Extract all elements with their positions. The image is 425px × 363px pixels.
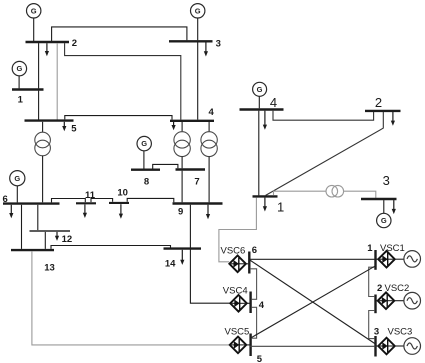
load arrow at right bus 4 xyxy=(264,111,266,126)
generator G at bus 3 xyxy=(191,4,205,18)
generator G at bus 2 xyxy=(27,4,41,18)
bus 5 busbar xyxy=(25,119,74,121)
svg-text:G: G xyxy=(31,6,37,15)
DC link 1-2 xyxy=(369,267,375,296)
wire bus 4 to transformer 4-9 xyxy=(208,122,210,132)
load arrow at bus 3 xyxy=(205,43,207,53)
generator G at bus 8 xyxy=(137,136,151,150)
wire line 7-8 xyxy=(153,164,178,168)
svg-text:VSC5: VSC5 xyxy=(225,327,250,338)
wire VSC4 to DC node 4 xyxy=(247,302,250,304)
wire VSC6 AC side to right grid bus 1 xyxy=(219,198,257,262)
svg-text:2: 2 xyxy=(377,283,382,294)
bus 4 busbar xyxy=(170,120,214,122)
wire generator lead to bus 2 xyxy=(33,18,35,41)
DC node 1 bar xyxy=(374,250,376,270)
transformer 4-9 xyxy=(201,132,217,148)
wire bus 13 to VSC5 xyxy=(32,251,230,345)
svg-text:2: 2 xyxy=(72,38,77,49)
wire line 2-5 xyxy=(56,43,58,119)
svg-text:VSC2: VSC2 xyxy=(385,283,410,294)
wire generator lead to bus 8 xyxy=(143,151,145,169)
right bus 3 busbar xyxy=(361,198,397,200)
wire line 9-14 continuing to VSC4 xyxy=(190,205,230,304)
AC source 3 xyxy=(404,338,421,355)
bus 6 busbar xyxy=(3,202,60,204)
svg-text:6: 6 xyxy=(252,245,257,256)
wire generator lead to right bus 3 xyxy=(383,200,385,213)
right bus 2 busbar xyxy=(365,110,401,112)
wire line 12-13 xyxy=(44,232,46,249)
wire bus 4 to transformer 4-7 xyxy=(181,122,183,132)
svg-text:8: 8 xyxy=(144,177,149,188)
AC source 2 xyxy=(404,292,421,309)
load arrow at right bus 3 xyxy=(393,200,395,210)
svg-text:G: G xyxy=(381,216,387,225)
svg-text:VSC3: VSC3 xyxy=(388,327,413,338)
bus 11 busbar xyxy=(76,202,96,204)
svg-text:VSC1: VSC1 xyxy=(380,243,405,254)
svg-text:G: G xyxy=(14,174,20,183)
DC link 4-5 xyxy=(251,307,256,338)
svg-text:4: 4 xyxy=(209,107,215,118)
bus 9 busbar xyxy=(173,202,223,204)
wire transformer 5-6 to bus 6 xyxy=(42,156,44,203)
converter VSC4 xyxy=(230,295,247,312)
wire VSC5 to DC node 5 xyxy=(246,344,249,346)
converter VSC2 xyxy=(378,292,395,309)
svg-text:4: 4 xyxy=(259,300,265,311)
wire DC node 2 to VSC2 xyxy=(377,300,378,302)
svg-text:5: 5 xyxy=(257,354,263,363)
svg-text:3: 3 xyxy=(216,39,221,50)
wire transformer 4-7 to bus 7 xyxy=(181,157,183,169)
wire line 7-9 xyxy=(181,171,183,203)
load arrow at bus 5 xyxy=(63,122,65,127)
bus 2 busbar xyxy=(26,41,70,43)
svg-text:9: 9 xyxy=(178,207,183,218)
load arrow at bus 10 xyxy=(120,204,122,214)
transformer 1-3 right grid xyxy=(326,185,338,197)
svg-text:1: 1 xyxy=(367,243,373,254)
svg-text:6: 6 xyxy=(3,194,8,205)
wire line 1-2 xyxy=(38,43,40,88)
wire DC node 3 to VSC3 xyxy=(377,345,379,347)
wire transformer 4-9 to bus 9 xyxy=(208,157,210,203)
svg-text:3: 3 xyxy=(383,173,390,188)
wire generator lead to right bus 4 xyxy=(258,96,260,108)
DC node 3 bar xyxy=(374,336,376,357)
transformer 4-7 xyxy=(174,132,190,148)
svg-text:12: 12 xyxy=(62,234,73,245)
svg-text:G: G xyxy=(16,64,22,73)
right bus 4 busbar xyxy=(240,108,284,110)
bus 1 busbar xyxy=(12,88,44,90)
DC link 5-3 xyxy=(250,345,376,347)
load arrow at bus 12 xyxy=(56,232,58,237)
converter VSC6 xyxy=(229,256,246,273)
DC link 6-4 xyxy=(250,269,257,300)
svg-text:10: 10 xyxy=(117,187,128,198)
DC link 6-1 xyxy=(250,258,376,260)
wire transformer 1-3 to right bus 3 xyxy=(344,191,376,198)
wire diagonal line 2-1 right grid xyxy=(266,112,384,195)
load arrow at bus 6 xyxy=(10,205,12,214)
bus 10 busbar xyxy=(109,202,129,204)
wire line 11-10 xyxy=(91,199,113,203)
wire generator lead to bus 3 xyxy=(197,18,199,40)
wire line 6-12 xyxy=(37,205,39,230)
transformer 5-6 xyxy=(35,132,51,148)
DC node 6 bar xyxy=(248,252,250,274)
load arrow at right bus 1 xyxy=(264,198,266,208)
wire line 13-14 xyxy=(51,246,171,249)
wire VSC2 to AC source 2 xyxy=(394,300,404,302)
bus 12 busbar xyxy=(30,230,71,232)
generator G at right bus 4 xyxy=(253,82,267,96)
bus 13 busbar xyxy=(11,249,54,251)
svg-text:13: 13 xyxy=(44,262,55,273)
load arrow at bus 14 xyxy=(181,250,183,261)
wire generator lead to bus 1 xyxy=(18,76,20,89)
load arrow at bus 2 xyxy=(46,43,48,52)
load arrow at bus 9 xyxy=(207,205,209,215)
wire line 1-5 xyxy=(38,91,40,120)
generator G at bus 6 xyxy=(10,171,25,186)
wire line 6-13 xyxy=(21,205,23,249)
wire VSC3 to AC source 3 xyxy=(395,345,404,347)
wire line 1-3 with transformer right grid xyxy=(274,191,327,195)
wire bus 5 to transformer 5-6 xyxy=(42,122,44,133)
DC link 5-1 diagonal xyxy=(250,266,376,339)
DC link 2-3 xyxy=(369,311,375,339)
wire line 4-5 xyxy=(65,116,172,120)
converter VSC3 xyxy=(378,338,395,355)
wire DC node 1 to VSC1 xyxy=(377,258,379,260)
wire line 4-1 right grid xyxy=(258,111,260,196)
load arrow at bus 4 xyxy=(173,122,175,126)
wire line 6-11 xyxy=(52,199,86,203)
wire line 2-3 xyxy=(52,27,187,41)
converter VSC5 xyxy=(230,337,247,354)
wire line 2-4 xyxy=(65,43,181,120)
wire VSC1 to AC source 1 xyxy=(395,258,404,260)
right bus 1 busbar xyxy=(253,195,278,197)
wire line 9-10 xyxy=(127,198,174,202)
wire line 3-4 xyxy=(197,43,199,120)
load arrow at bus 11 xyxy=(84,205,86,214)
svg-text:2: 2 xyxy=(375,95,382,110)
svg-text:4: 4 xyxy=(270,95,277,110)
bus 7 busbar xyxy=(176,168,206,170)
svg-text:14: 14 xyxy=(165,259,176,270)
svg-text:VSC6: VSC6 xyxy=(221,246,246,257)
generator G at bus 1 xyxy=(12,61,26,75)
load arrow at right bus 2 xyxy=(392,112,394,121)
DC node 4 bar xyxy=(249,292,251,314)
bus 14 busbar xyxy=(164,247,202,249)
AC source 1 xyxy=(404,251,421,268)
svg-text:11: 11 xyxy=(85,190,96,201)
svg-text:G: G xyxy=(141,139,147,148)
bus 8 busbar xyxy=(131,168,160,170)
svg-text:1: 1 xyxy=(18,95,24,106)
generator G at right bus 3 xyxy=(377,213,391,227)
wire VSC6 to DC node 6 xyxy=(246,263,248,265)
wire line 4-2 right grid xyxy=(273,111,374,121)
DC node 2 bar xyxy=(374,295,376,314)
svg-text:G: G xyxy=(257,85,263,94)
svg-text:VSC4: VSC4 xyxy=(223,286,248,297)
svg-text:3: 3 xyxy=(374,326,379,337)
svg-text:5: 5 xyxy=(71,124,77,135)
svg-text:7: 7 xyxy=(194,177,199,188)
svg-text:1: 1 xyxy=(277,199,284,214)
wire generator lead to bus 6 xyxy=(16,186,18,202)
bus 3 busbar xyxy=(169,40,213,42)
converter VSC1 xyxy=(378,251,395,268)
svg-text:G: G xyxy=(195,6,201,15)
DC link 6-3 diagonal xyxy=(250,260,376,344)
DC node 5 bar xyxy=(249,334,251,357)
